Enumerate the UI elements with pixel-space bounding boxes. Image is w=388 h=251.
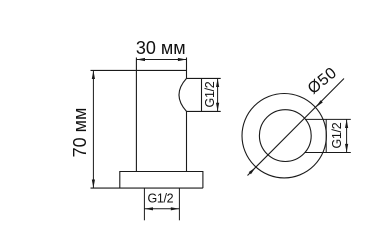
body circle (259, 110, 311, 162)
dimension line 30mm (136, 59, 186, 61)
arrow G1/2 circle up (345, 119, 348, 128)
arrow G1/2 bottom left (144, 207, 153, 210)
flange bottom edge (91, 187, 203, 189)
dimension line G1/2 right (217, 78, 219, 111)
svg-text:30 мм: 30 мм (136, 38, 186, 58)
svg-text:70 мм: 70 мм (70, 108, 90, 158)
body top edge (91, 69, 187, 71)
svg-text:G1/2: G1/2 (147, 191, 173, 205)
dimension line G1/2 circle (346, 119, 348, 152)
body right edge lower (186, 111, 188, 171)
arrow diameter lower-left (249, 167, 256, 174)
body left edge (135, 58, 137, 172)
arrow 70mm up (92, 70, 95, 79)
svg-text:G1/2: G1/2 (203, 81, 217, 107)
dimension line 70mm (92, 70, 94, 188)
dimension line G1/2 bottom (144, 208, 179, 210)
thread top line (305, 118, 351, 120)
arrow G1/2 bottom right (171, 207, 180, 210)
thread bottom line (305, 152, 351, 154)
arrow G1/2 circle down (345, 144, 348, 153)
outlet top edge (187, 77, 221, 79)
body right edge upper (186, 58, 188, 79)
diameter leader line (248, 79, 345, 176)
arrow 30mm left (136, 58, 145, 61)
arrow 70mm down (92, 180, 95, 189)
arrow G1/2 right up (216, 78, 219, 87)
extension line G1/2 bottom right (178, 188, 180, 220)
svg-text:G1/2: G1/2 (330, 122, 344, 148)
thread end face line (325, 119, 327, 152)
extension line G1/2 bottom left (143, 188, 145, 220)
arrow diameter upper-right (316, 100, 323, 107)
outlet bottom edge (187, 110, 221, 112)
arrow G1/2 right down (216, 103, 219, 112)
svg-text:Ø50: Ø50 (305, 64, 341, 97)
outlet right edge (201, 78, 203, 111)
flange circle (242, 94, 326, 178)
flange outline (120, 172, 203, 189)
arrow 30mm right (178, 58, 187, 61)
outlet left arc (179, 78, 187, 111)
